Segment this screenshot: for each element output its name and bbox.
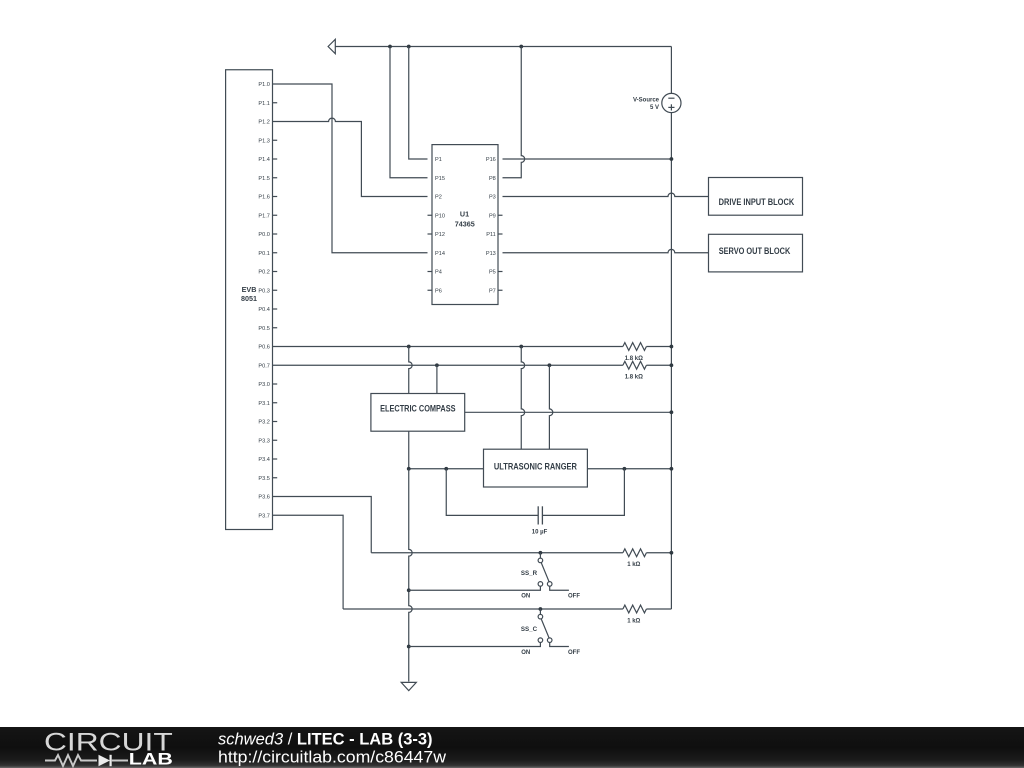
EVB pin stub P1.1 [273,102,278,104]
U1 pin stub P9 [498,214,503,216]
EVB pin stub P1.7 [273,214,278,216]
junction on top rail x390 [388,45,392,49]
svg-text:P0.5: P0.5 [258,326,270,332]
junction P0.7 at x549.4 [548,363,552,367]
svg-text:P7: P7 [489,288,496,294]
wire bus top segment into V-source [670,47,672,94]
wire R4 to bus end [646,608,671,610]
wire EVB P1.0 to U1 P14 [273,84,428,253]
wire EVB P3.6 to SS_R row [273,497,372,553]
svg-text:P12: P12 [435,232,445,238]
EVB pin stub P0.4 [273,308,278,310]
EVB pin stub P0.5 [273,327,278,329]
U1 pin stub P12 [428,233,433,235]
resistor R1 1.8k [623,343,647,351]
junction ground line at SS_R ON row [407,588,411,592]
wire EVB P0.7 row to resistor R2 [273,364,623,366]
junction bus at compass row [670,410,674,414]
svg-text:P16: P16 [486,157,496,163]
svg-text:P3.2: P3.2 [258,420,270,426]
net flag arrow (top rail) [328,39,335,53]
junction SS_R common [539,551,543,555]
switch SS_R ON terminal [538,582,543,587]
svg-text:P1.4: P1.4 [258,157,270,163]
resistor R2 1.8k [623,361,647,369]
switch SS_C common lead [539,609,541,614]
U1 pin stub P10 [428,214,433,216]
switch SS_C common terminal [538,614,543,619]
junction bus at ranger row [670,467,674,471]
svg-text:P1.5: P1.5 [258,176,270,182]
svg-text:P3.6: P3.6 [258,495,270,501]
wire SS_R OFF stub [550,586,569,590]
junction cap left riser at ranger row [444,467,448,471]
svg-text:P9: P9 [489,213,496,219]
wire ranger right pin to bus [587,468,671,470]
svg-text:OFF: OFF [568,650,580,656]
wire bus main vertical [670,113,672,609]
IC U1 74365 body [432,145,498,305]
EVB pin stub P0.3 [273,289,278,291]
junction cap right riser at ranger row [623,467,627,471]
block SERVO OUT BLOCK [709,234,803,272]
svg-text:P11: P11 [486,232,496,238]
svg-text:P0.6: P0.6 [258,345,270,351]
EVB pin stub P3.3 [273,439,278,441]
svg-text:LAB: LAB [129,750,173,768]
logo resistor zigzag [45,755,97,766]
svg-text:OFF: OFF [568,594,580,600]
wire top rail to U1 P8 (hops P16 wire) [503,47,525,178]
svg-text:P1.3: P1.3 [258,138,270,144]
switch SS_R lever [541,563,549,582]
svg-text:P1.0: P1.0 [258,82,270,88]
resistor R3 1k [623,549,647,557]
wire ranger left pin to ground line [409,468,484,470]
EVB pin stub P3.1 [273,402,278,404]
svg-text:http://circuitlab.com/c86447w: http://circuitlab.com/c86447w [218,748,446,766]
EVB pin stub P3.2 [273,421,278,423]
svg-text:ELECTRIC COMPASS: ELECTRIC COMPASS [380,403,455,413]
capacitor C1 plates [537,506,539,524]
block DRIVE INPUT BLOCK [709,178,803,216]
wire SS_R ON to ground line [409,586,541,590]
wire SS_C row horizontal to resistor R4 [343,608,623,610]
svg-text:U1: U1 [460,210,469,219]
EVB pin stub P1.6 [273,196,278,198]
EVB pin stub P3.0 [273,383,278,385]
switch SS_C OFF terminal [547,638,552,643]
svg-text:P15: P15 [435,176,445,182]
svg-text:P0.2: P0.2 [258,270,270,276]
svg-text:P1.1: P1.1 [258,101,270,107]
svg-text:DRIVE INPUT BLOCK: DRIVE INPUT BLOCK [719,197,795,207]
wire P0.6 down to compass pin 1 (hops P0.7 wire) [409,347,412,394]
svg-text:SERVO OUT BLOCK: SERVO OUT BLOCK [719,246,791,256]
svg-text:P0.4: P0.4 [258,307,270,313]
svg-text:P14: P14 [435,251,445,257]
switch SS_C ON terminal [538,638,543,643]
wire top rail to U1 P1 [409,47,428,160]
U1 pin stub P7 [498,289,503,291]
wire compass right pin to bus (straight) [465,411,672,413]
switch SS_R common terminal [538,558,543,563]
svg-text:1.8 kΩ: 1.8 kΩ [625,375,643,381]
wire EVB P3.7 to SS_C row [273,515,344,609]
svg-text:ON: ON [521,650,530,656]
svg-text:P1.6: P1.6 [258,195,270,201]
footer bar [0,727,1024,768]
svg-text:P3.5: P3.5 [258,476,270,482]
svg-text:P13: P13 [486,251,496,257]
EVB pin stub P1.5 [273,177,278,179]
svg-text:P3.3: P3.3 [258,438,270,444]
svg-text:P1.2: P1.2 [258,120,270,126]
wire P0.7 down to compass pin 2 [436,365,438,393]
wire P0.7 down to ranger pin 2 (hops compass wire) [549,365,552,449]
junction P0.6 at x408.75 [407,345,411,349]
junction on top rail x408.75 [407,45,411,49]
junction P0.7 at x436.9 [435,363,439,367]
svg-text:P3.4: P3.4 [258,457,270,463]
ground symbol [401,682,416,690]
EVB pin stub P3.4 [273,458,278,460]
junction bus at SS_R row [670,551,674,555]
svg-text:P0.3: P0.3 [258,288,270,294]
EVB pin stub P0.0 [273,233,278,235]
svg-text:P1.7: P1.7 [258,213,270,219]
junction bus at P0.6 row [670,345,674,349]
wire compass bottom pin down to ground line [408,431,410,469]
switch SS_R OFF terminal [547,582,552,587]
EVB pin stub P1.3 [273,139,278,141]
EVB pin stub P0.2 [273,271,278,273]
wire U1 P16 to bus [503,158,672,160]
svg-text:SS_R: SS_R [521,570,538,577]
svg-text:P0.0: P0.0 [258,232,270,238]
svg-text:P4: P4 [435,270,442,276]
wire cap left riser [446,469,538,516]
svg-text:5 V: 5 V [650,105,659,111]
junction bus at P16 row [670,157,674,161]
svg-text:ULTRASONIC RANGER: ULTRASONIC RANGER [494,461,577,471]
junction P0.6 at x521.25 [519,345,523,349]
wire SS_C OFF stub [550,643,569,647]
svg-text:P3.0: P3.0 [258,382,270,388]
junction ground line at ranger row [407,467,411,471]
switch SS_R common lead [539,553,541,558]
junction bus at P0.7 row [670,363,674,367]
svg-text:SS_C: SS_C [521,626,538,633]
EVB pin stub P1.4 [273,158,278,160]
svg-text:P1: P1 [435,157,442,163]
V-source plus sign [668,106,674,108]
svg-text:P5: P5 [489,270,496,276]
svg-text:ON: ON [521,594,530,600]
voltage source V-Source 5V circle [662,93,681,112]
svg-text:P3.1: P3.1 [258,401,270,407]
svg-text:P8: P8 [489,176,496,182]
svg-text:schwed3 / LITEC - LAB (3-3): schwed3 / LITEC - LAB (3-3) [218,731,433,749]
svg-text:P10: P10 [435,213,445,219]
wire cap right riser [542,469,624,516]
junction on top rail x521.25 [519,45,523,49]
wire U1 P3 to DRIVE INPUT BLOCK (hops bus) [503,193,709,196]
switch SS_C lever [541,619,549,638]
wire EVB P0.6 row to resistor R1 [273,346,623,348]
svg-text:P3: P3 [489,195,496,201]
svg-text:P6: P6 [435,288,442,294]
U1 pin stub P4 [428,271,433,273]
block ULTRASONIC RANGER [484,449,588,487]
wire R2 to bus [646,364,671,366]
junction SS_C common [539,607,543,611]
wire SS_C ON to ground line [409,643,541,647]
logo diode [99,755,111,766]
svg-text:P2: P2 [435,195,442,201]
svg-text:P3.7: P3.7 [258,513,270,519]
wire ground vertical (hops switch rows) [409,469,412,682]
block ELECTRIC COMPASS [371,394,465,432]
resistor R4 1k [623,605,647,613]
wire U1 P13 to SERVO OUT BLOCK (hops bus) [503,249,709,252]
svg-text:1 kΩ: 1 kΩ [627,562,640,568]
U1 pin stub P6 [428,289,433,291]
svg-text:P0.7: P0.7 [258,363,270,369]
junction ground line at SS_C ON row [407,645,411,649]
svg-text:V-Source: V-Source [633,98,660,104]
wire EVB P1.2 to U1 P2 (hops P1.0 wire) [273,118,428,196]
wire SS_R row horizontal to resistor R3 [371,552,623,554]
V-source minus sign [668,97,674,99]
wire P0.6 down to ranger pin 1 (hops P0.7 and compass wires) [521,347,524,450]
wire top rail horizontal [335,46,671,48]
U1 pin stub P5 [498,271,503,273]
svg-text:8051: 8051 [241,294,257,303]
svg-text:10 µF: 10 µF [532,530,548,536]
svg-text:P0.1: P0.1 [258,251,270,257]
wire R1 to bus [646,346,671,348]
EVB pin stub P3.5 [273,477,278,479]
svg-text:74365: 74365 [455,220,475,229]
IC EVB 8051 body [226,70,273,530]
wire R3 to bus [646,552,671,554]
svg-text:1 kΩ: 1 kΩ [627,619,640,625]
EVB pin stub P0.1 [273,252,278,254]
U1 pin stub P11 [498,233,503,235]
svg-text:EVB: EVB [242,285,257,294]
wire top rail to U1 P15 [390,47,428,178]
